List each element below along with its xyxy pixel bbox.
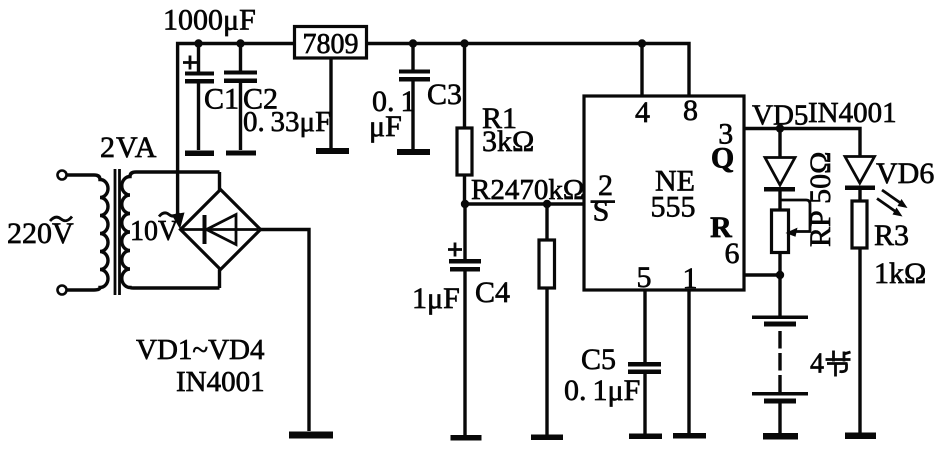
regulator U1 7809 bbox=[295, 27, 367, 61]
transformer T1 primary terminal bottom bbox=[58, 286, 67, 295]
pin 1 label bbox=[683, 262, 698, 295]
node R1/C4/pin2 junction bbox=[461, 200, 469, 208]
ground under 7809 bbox=[316, 148, 349, 154]
transformer T1 primary winding bbox=[67, 175, 109, 290]
svg-text:4: 4 bbox=[810, 349, 824, 380]
label VD6 bbox=[876, 157, 934, 190]
pin R label bbox=[710, 211, 732, 244]
ground under battery bbox=[763, 433, 798, 440]
svg-text:μF: μF bbox=[369, 110, 402, 143]
svg-text:R3: R3 bbox=[874, 219, 909, 252]
wire bridge DC- output bbox=[261, 230, 310, 432]
svg-text:C1: C1 bbox=[204, 83, 239, 116]
svg-text:3kΩ: 3kΩ bbox=[482, 125, 534, 158]
bridge rectifier VD1-VD4 bbox=[181, 190, 261, 270]
ground under bridge output bbox=[289, 432, 333, 439]
transformer T1 primary terminal top bbox=[58, 171, 67, 180]
pin 2 S-bar label bbox=[591, 169, 616, 228]
svg-text:Q: Q bbox=[711, 142, 734, 175]
node C2 rail junction bbox=[236, 39, 244, 47]
wire VD5 branch bbox=[778, 129, 781, 211]
label R2 470k bbox=[471, 174, 584, 206]
arrowhead into bridge DC+ node bbox=[172, 213, 185, 230]
svg-text:S: S bbox=[593, 195, 610, 228]
svg-text:1000μF: 1000μF bbox=[163, 4, 256, 37]
pin Q label bbox=[711, 142, 734, 175]
label 4 cells bbox=[810, 349, 851, 380]
node C3 rail junction bbox=[409, 39, 417, 47]
capacitor C3 bbox=[369, 44, 462, 151]
capacitor C4 electrolytic bbox=[412, 204, 510, 436]
pin 3 label bbox=[718, 118, 733, 151]
wire VD6 branch bbox=[858, 190, 861, 202]
svg-text:0. 33μF: 0. 33μF bbox=[243, 106, 331, 138]
svg-text:IN4001: IN4001 bbox=[808, 97, 897, 129]
svg-text:7809: 7809 bbox=[303, 29, 359, 60]
label IN4001 bbox=[808, 97, 897, 129]
svg-text:RP 50Ω: RP 50Ω bbox=[804, 152, 837, 247]
ground under C5 bbox=[629, 434, 662, 440]
ground under C3 bbox=[397, 149, 430, 155]
ground under pin 1 bbox=[673, 433, 706, 439]
pin 4 label bbox=[635, 96, 650, 129]
svg-text:4: 4 bbox=[635, 96, 650, 129]
ground under C4 bbox=[451, 435, 482, 441]
wire pin 5 to C5 bbox=[643, 290, 646, 362]
node pin4 rail junction bbox=[638, 39, 646, 47]
node pin6 battery junction bbox=[776, 271, 784, 279]
diode VD5 bbox=[764, 158, 795, 192]
resistor R3 1k bbox=[852, 201, 926, 434]
svg-text:8: 8 bbox=[683, 94, 698, 127]
pin 5 label bbox=[637, 261, 652, 294]
svg-text:0. 1μF: 0. 1μF bbox=[564, 374, 640, 407]
label 1000uF bbox=[163, 4, 256, 37]
svg-text:R2470kΩ: R2470kΩ bbox=[471, 174, 584, 206]
svg-text:C5: C5 bbox=[581, 343, 616, 376]
svg-text:5: 5 bbox=[637, 261, 652, 294]
svg-text:6: 6 bbox=[725, 237, 740, 270]
wire pin 3 output to VD5/VD6 bbox=[744, 129, 860, 157]
node C1 rail junction bbox=[194, 39, 202, 47]
ground under C2 bbox=[226, 151, 256, 156]
wire top rail right segment to pin8 bbox=[366, 44, 690, 97]
ground under C1 bbox=[185, 151, 214, 157]
svg-text:2VA: 2VA bbox=[100, 131, 157, 164]
IC U2 NE555 bbox=[584, 96, 744, 290]
resistor R1 3k bbox=[457, 44, 534, 205]
svg-text:VD1~VD4: VD1~VD4 bbox=[136, 334, 265, 366]
resistor R2 470k bbox=[539, 204, 555, 436]
pin 6 label bbox=[725, 237, 740, 270]
wire top rail left segment bbox=[178, 44, 296, 220]
svg-text:C3: C3 bbox=[427, 78, 462, 111]
node VD5 branch junction bbox=[776, 124, 784, 132]
capacitor C2 bbox=[224, 44, 331, 151]
label IN4001 bridge bbox=[176, 366, 265, 398]
ground under R3 bbox=[845, 433, 876, 440]
potentiometer RP 50 ohm bbox=[772, 152, 838, 253]
label VD1~VD4 bbox=[136, 334, 265, 366]
node R2 junction bbox=[543, 200, 551, 208]
ground under R2 bbox=[531, 435, 563, 441]
svg-text:1kΩ: 1kΩ bbox=[874, 257, 926, 290]
wire secondary bottom stub bbox=[218, 270, 221, 289]
wire secondary top stub bbox=[218, 172, 221, 190]
capacitor C5 bbox=[564, 343, 661, 436]
transformer T1 secondary winding bbox=[122, 172, 220, 288]
wire pin 1 to ground bbox=[687, 290, 690, 436]
pin 8 label bbox=[683, 94, 698, 127]
svg-text:C4: C4 bbox=[475, 276, 510, 309]
diode VD6 LED bbox=[845, 157, 908, 217]
battery 4 cells bbox=[752, 316, 808, 435]
label 2VA bbox=[100, 131, 157, 164]
svg-text:1μF: 1μF bbox=[412, 282, 460, 315]
svg-text:555: 555 bbox=[651, 191, 696, 224]
svg-text:10V: 10V bbox=[130, 216, 178, 247]
capacitor C1 bbox=[183, 44, 239, 151]
wire RP to battery bbox=[778, 253, 781, 316]
label 10V bbox=[130, 213, 179, 248]
transformer T1 core bbox=[115, 169, 120, 295]
svg-text:IN4001: IN4001 bbox=[176, 366, 265, 398]
wire pin 4 riser bbox=[640, 44, 643, 97]
wire 7809 ground pin bbox=[329, 57, 332, 149]
svg-text:VD6: VD6 bbox=[876, 157, 934, 190]
wire pin 6 to RP/battery node bbox=[744, 273, 780, 276]
wire node to 555 pin 2 bbox=[465, 202, 584, 205]
label 220V bbox=[7, 217, 74, 251]
label VD5 bbox=[752, 100, 808, 132]
node R1 rail junction bbox=[460, 39, 468, 47]
